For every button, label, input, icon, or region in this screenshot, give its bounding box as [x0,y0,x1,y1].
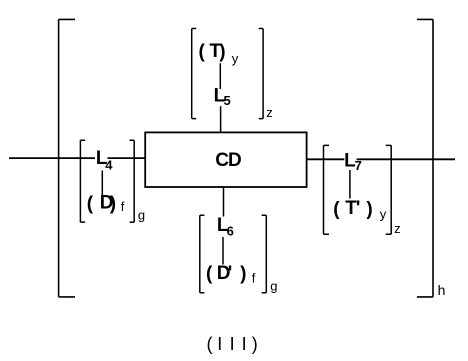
svg-text:): ) [110,193,116,214]
svg-text:): ) [240,264,246,285]
svg-text:5: 5 [224,93,231,108]
svg-text:z: z [266,105,273,120]
svg-text:': ' [228,263,233,284]
svg-text:g: g [270,278,277,293]
svg-text:CD: CD [215,150,241,171]
svg-text:y: y [232,51,239,66]
svg-text:): ) [219,42,225,63]
svg-text:I: I [242,334,247,354]
svg-text:6: 6 [227,223,234,238]
svg-text:7: 7 [355,158,362,173]
svg-text:h: h [438,282,446,298]
svg-text:I: I [217,334,222,354]
svg-text:4: 4 [105,158,113,173]
svg-text:z: z [394,221,401,236]
svg-text:(: ( [199,42,206,63]
svg-text:f: f [121,199,125,214]
svg-text:): ) [366,199,372,220]
svg-text:I: I [230,334,235,354]
svg-text:): ) [252,334,258,354]
svg-text:': ' [356,198,361,219]
svg-text:y: y [380,207,387,222]
svg-text:(: ( [207,334,213,354]
svg-text:(: ( [87,193,94,214]
svg-text:(: ( [333,199,340,220]
svg-text:f: f [252,270,256,285]
svg-text:g: g [138,208,145,223]
svg-text:(: ( [206,264,213,285]
